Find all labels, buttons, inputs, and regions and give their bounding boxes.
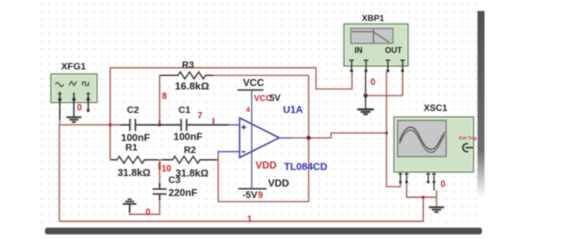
window right edge dark bar: [478, 11, 485, 197]
capacitor C3: [153, 183, 167, 200]
VDD supply T-bar: [238, 188, 266, 190]
svg-text:XSC1: XSC1: [424, 103, 448, 113]
junction node input: [109, 123, 112, 126]
svg-text:9: 9: [258, 190, 263, 200]
junction node 8: [158, 123, 161, 126]
svg-text:16.8kΩ: 16.8kΩ: [175, 82, 209, 93]
svg-text:5V: 5V: [270, 93, 281, 103]
ground under XFG1: [66, 116, 81, 123]
svg-text:OUT: OUT: [385, 46, 402, 55]
XFG1 function generator box: [51, 74, 97, 103]
wire XSC1 A- down to ground rail: [407, 183, 437, 198]
svg-text:0: 0: [371, 77, 376, 87]
XBP1 bode plotter box: [344, 24, 408, 66]
svg-text:31.8kΩ: 31.8kΩ: [117, 168, 150, 179]
op-amp power stem vertical: [251, 90, 253, 189]
wire op-amp output to XSC1 A: [290, 133, 387, 138]
capacitor C2: [121, 119, 160, 131]
capacitor C1: [160, 119, 229, 131]
XFG1 waveform glyphs: [56, 82, 89, 87]
svg-text:7: 7: [198, 111, 203, 121]
svg-text:4: 4: [246, 107, 250, 114]
wire input riser up-and-over to XBP1 IN+: [110, 68, 352, 160]
ground under C3 (flipped): [123, 198, 137, 212]
svg-text:10: 10: [162, 164, 172, 174]
svg-text:C1: C1: [178, 105, 191, 116]
svg-text:VDD: VDD: [256, 161, 277, 172]
svg-text:IN: IN: [355, 46, 363, 55]
wire XFG1 plus terminal down to input net: [59, 108, 61, 125]
XFG1 plus mark: [58, 92, 90, 96]
svg-text:R3: R3: [182, 60, 194, 71]
junction node 10: [158, 163, 160, 170]
XFG1 terminals: [60, 93, 88, 121]
XSC1 ext trig terminal: [463, 144, 473, 152]
svg-text:8: 8: [162, 91, 167, 101]
svg-text:R1: R1: [125, 143, 138, 154]
wire XBP1 IN- to ground: [365, 72, 367, 110]
junction bottom bus riser: [422, 196, 425, 199]
wire node8 riser C2-C1 junction to R3: [160, 75, 178, 125]
junction node 7 red tick: [213, 118, 215, 125]
schematic canvas dotted background: [40, 3, 481, 229]
svg-text:220nF: 220nF: [169, 188, 198, 199]
op-amp U1A triangle: [240, 118, 280, 158]
wire XBP1 OUT- down: [402, 72, 404, 96]
ground under XBP1: [357, 108, 373, 115]
svg-text:-5V: -5V: [243, 190, 258, 201]
resistor R2: [162, 156, 217, 163]
XBP1 screen: [351, 28, 393, 43]
svg-text:0: 0: [146, 207, 151, 217]
svg-text:C2: C2: [127, 105, 139, 116]
svg-text:TL084CD: TL084CD: [284, 162, 327, 173]
wire R2 left to node 10: [160, 159, 173, 161]
svg-text:0: 0: [77, 103, 82, 113]
wire XBP1 ground horizontal: [366, 95, 403, 97]
svg-text:VDD: VDD: [268, 179, 289, 190]
XSC1 screen sine waves: [400, 127, 446, 149]
wire output riser vertical: [308, 75, 310, 201]
junction XBP1 ground: [364, 94, 368, 98]
resistor R3: [161, 72, 214, 79]
svg-text:XFG1: XFG1: [61, 61, 87, 72]
wire R1 left corner: [110, 159, 116, 161]
ground under XSC1: [429, 206, 444, 213]
svg-text:1: 1: [247, 214, 252, 224]
wire bottom bus net 1: [59, 197, 423, 221]
svg-text:U1A: U1A: [283, 105, 303, 116]
op-amp plus mark: [242, 125, 247, 129]
XSC1 screen: [398, 120, 447, 156]
XBP1 terminals: [349, 60, 405, 72]
wire node10 riser to C3: [159, 160, 161, 189]
window bottom dark bar: [45, 228, 482, 235]
XSC1 terminals A and B: [399, 173, 436, 191]
wire left vertical down to bottom bus: [58, 124, 60, 221]
XBP1 screen curve: [352, 32, 390, 43]
wire R3 right to output riser: [206, 74, 309, 76]
svg-text:R2: R2: [184, 145, 196, 156]
svg-text:VCC: VCC: [243, 78, 264, 89]
op-amp minus mark: [242, 151, 246, 153]
VCC supply T-bar: [238, 89, 264, 91]
wire C2 left lead red part: [110, 124, 121, 126]
wire C3 bottom to ground dome: [130, 194, 160, 214]
svg-text:XBP1: XBP1: [362, 13, 385, 23]
wire XBP1 OUT+ riser down through to XSC1 A: [387, 72, 401, 187]
op-amp input pins: [218, 125, 291, 152]
svg-text:Ext Trig: Ext Trig: [459, 136, 477, 142]
wire lower feedback horizontal: [218, 152, 308, 202]
wire input horizontal to C2: [59, 124, 120, 126]
svg-text:0: 0: [441, 179, 446, 189]
wire XSC1 ground riser: [436, 190, 438, 206]
junction output node: [307, 136, 311, 140]
XSC1 oscilloscope box: [394, 117, 474, 172]
junction XSC1 A wire: [385, 132, 388, 135]
svg-text:100nF: 100nF: [174, 132, 203, 143]
resistor R1: [111, 156, 159, 163]
svg-text:C3: C3: [168, 175, 180, 186]
